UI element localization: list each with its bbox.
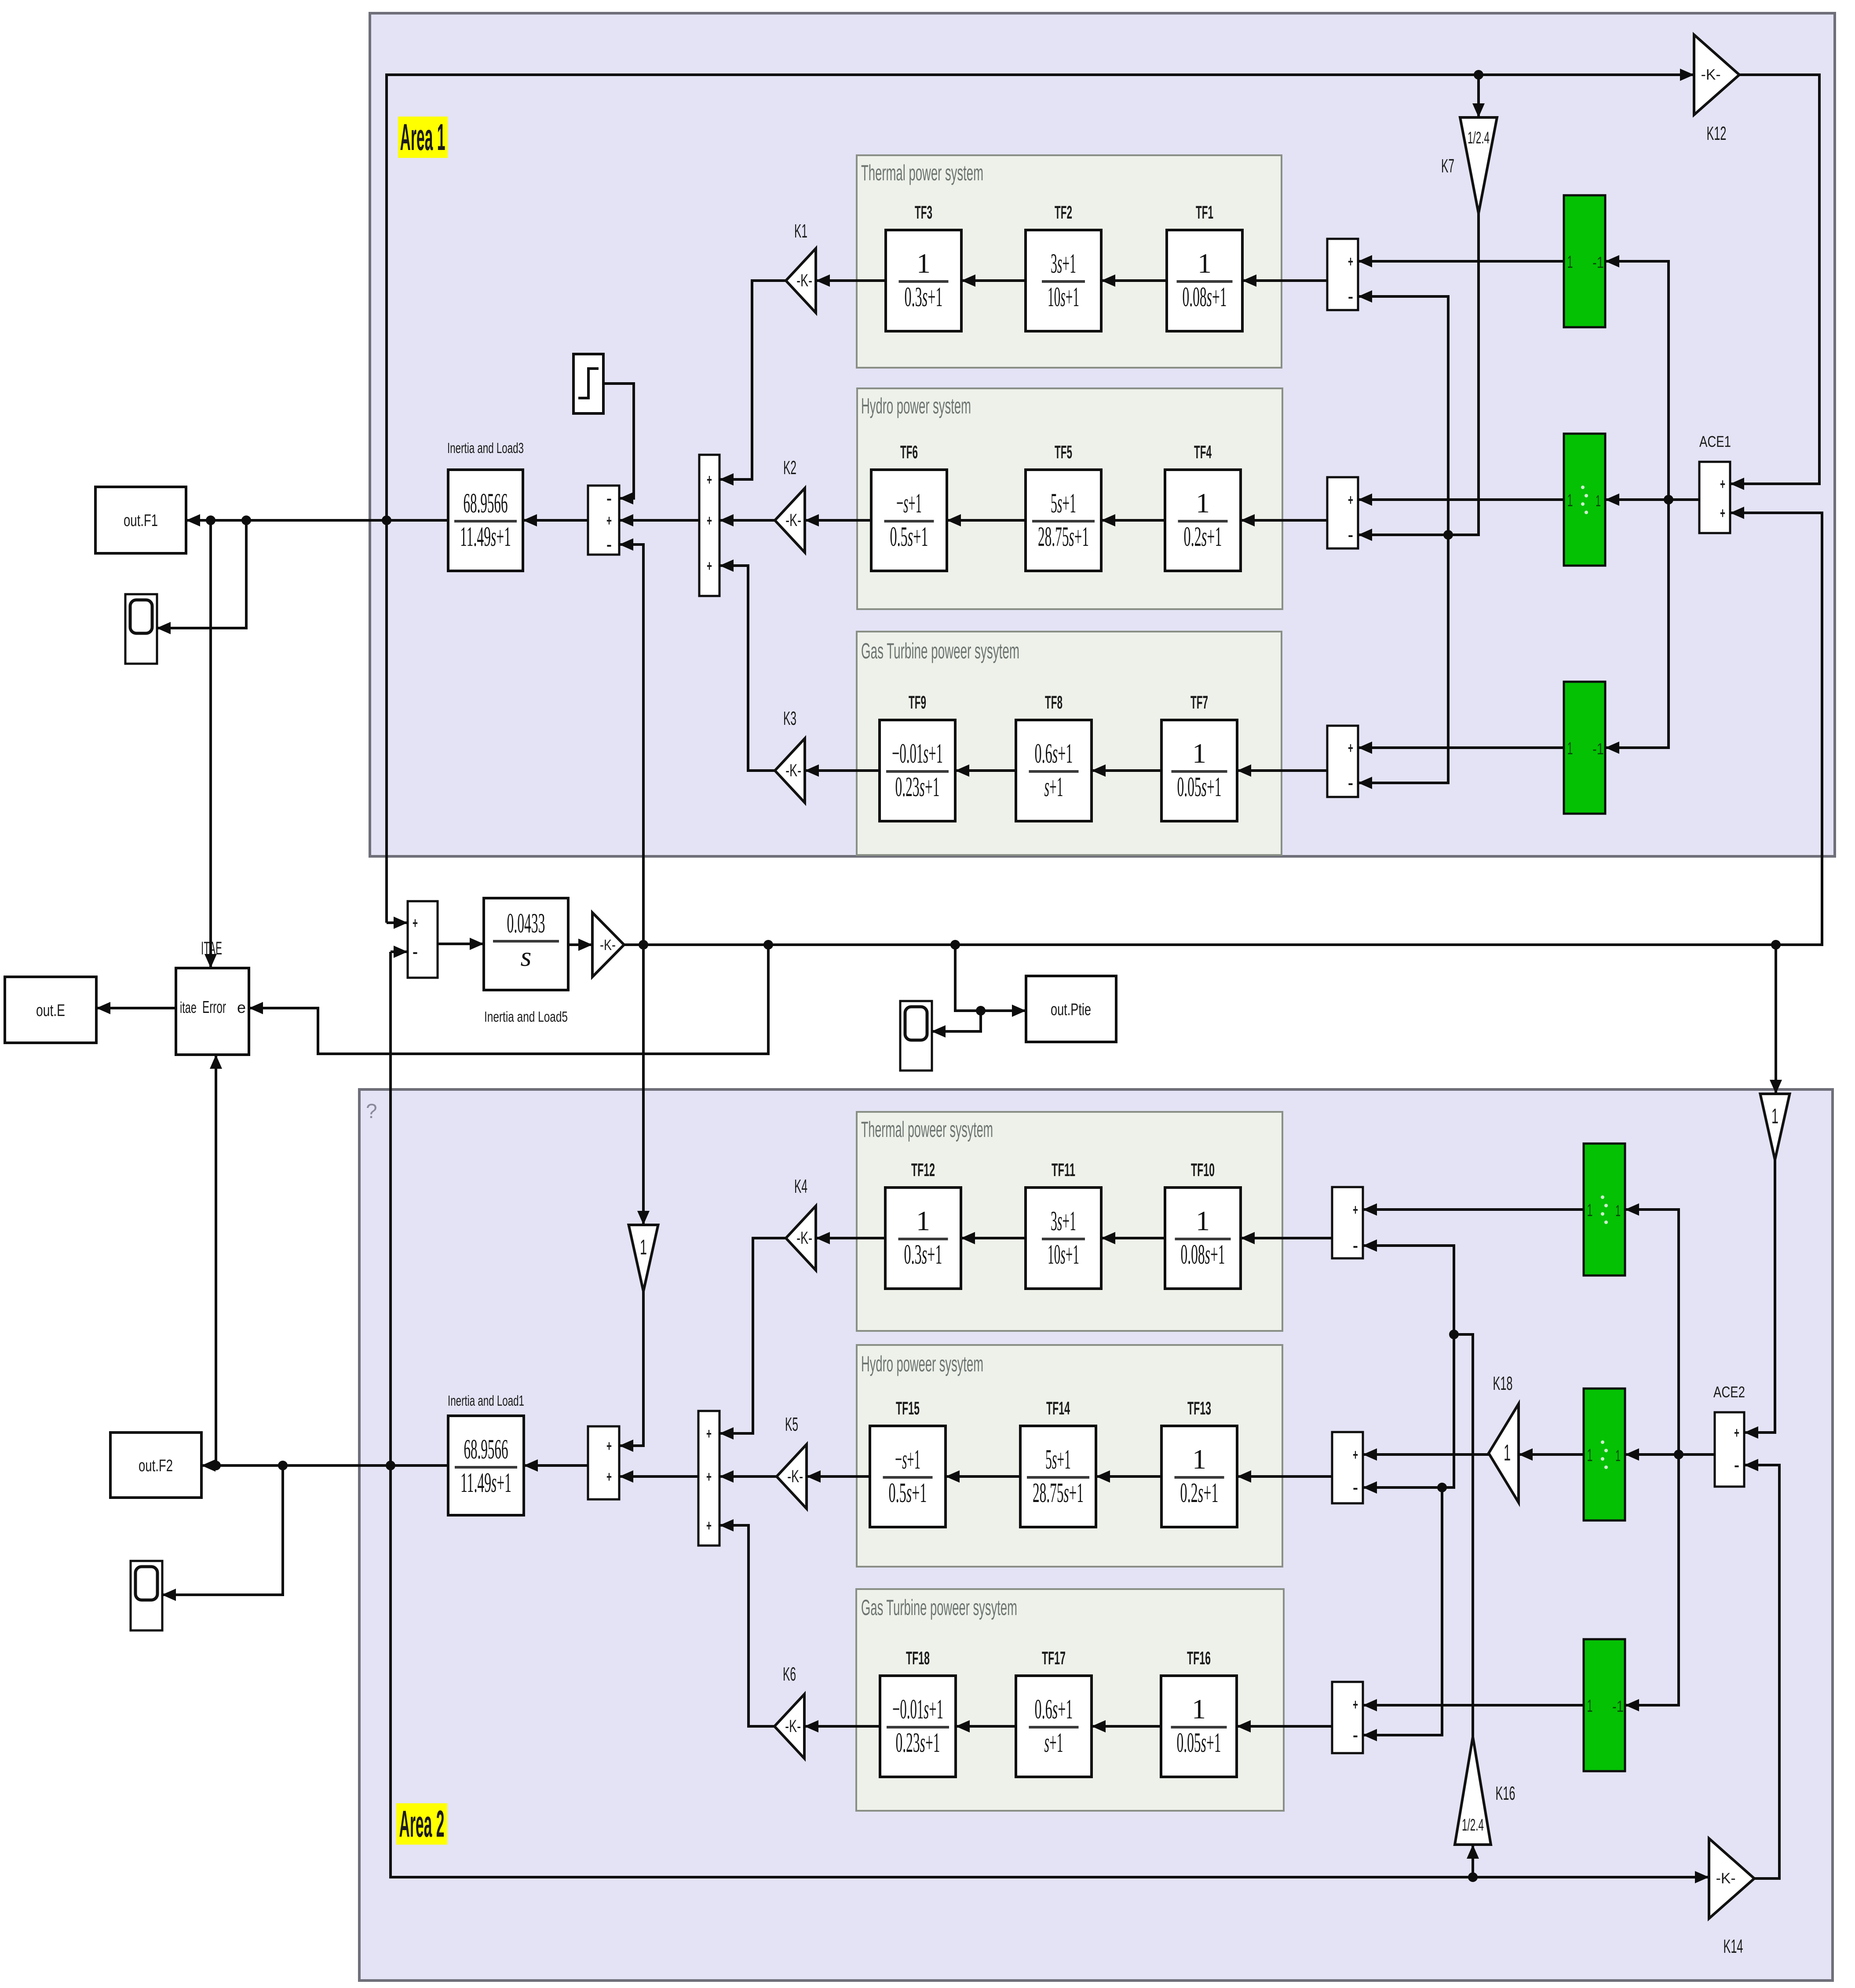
svg-text:ACE2: ACE2 [1713, 1384, 1745, 1401]
svg-text:+: + [707, 512, 712, 529]
wire: Error out to out.E [96, 1007, 176, 1009]
svg-text:1: 1 [1567, 252, 1573, 272]
svg-text:0.2s+1: 0.2s+1 [1180, 1477, 1219, 1508]
wire: gas chain (A2) [1237, 1725, 1332, 1728]
svg-text:-K-: -K- [1716, 1870, 1736, 1887]
svg-text:1: 1 [1196, 1205, 1210, 1236]
svg-text:−0.01s+1: −0.01s+1 [892, 1693, 943, 1725]
wire: minus chain down to gas sum [1358, 535, 1448, 783]
svg-text:0.08s+1: 0.08s+1 [1183, 281, 1227, 312]
svg-text:K7: K7 [1441, 155, 1454, 177]
outport out.E [5, 977, 96, 1043]
svg-text:TF5: TF5 [1055, 442, 1072, 462]
svg-text:Hydro power system: Hydro power system [861, 394, 971, 418]
Area 2 region box [359, 1089, 1833, 1981]
wire: tie to Error e [249, 945, 768, 1054]
wire: K3 to big sum in3 [719, 566, 775, 771]
svg-text:1: 1 [1198, 248, 1212, 279]
gain K6 [774, 1694, 804, 1758]
wire: tie to gain 1 right [1775, 945, 1777, 1094]
svg-text:-K-: -K- [796, 1228, 812, 1248]
wire: minus chain to thermal sum (A2) [1363, 1246, 1454, 1334]
Area 1 region box [370, 13, 1835, 856]
svg-text:-K-: -K- [1701, 66, 1721, 83]
gain K16 [1455, 1737, 1491, 1845]
svg-text:+: + [707, 471, 712, 488]
wire: tie to out.Ptie and scope [955, 945, 1026, 1011]
svg-text:-: - [1734, 1457, 1739, 1474]
svg-text:5s+1: 5s+1 [1051, 487, 1076, 519]
svg-text:68.9566: 68.9566 [464, 1433, 508, 1465]
svg-text:TF14: TF14 [1046, 1398, 1070, 1418]
wire: K16 up to minus chain [1454, 1334, 1473, 1737]
wire: K18 to hydro sum (A2) [1363, 1453, 1489, 1456]
svg-text:+: + [1353, 1447, 1358, 1463]
svg-text:28.75s+1: 28.75s+1 [1038, 521, 1089, 552]
block Inertia and Load5 [484, 898, 568, 990]
sum (gas, Area 2) [1332, 1682, 1363, 1753]
svg-text:TF11: TF11 [1052, 1159, 1075, 1180]
wire: 2-sum to Inertia1 [524, 1464, 588, 1467]
scope (F1) [125, 594, 157, 664]
svg-text:TF6: TF6 [900, 442, 918, 462]
block TF5 [1026, 470, 1101, 571]
svg-text:+: + [1720, 476, 1725, 493]
wire: gas chain [1237, 769, 1327, 772]
svg-text:0.6s+1: 0.6s+1 [1035, 1693, 1073, 1725]
svg-text:−s+1: −s+1 [895, 1443, 920, 1475]
sum (tie-line) [408, 901, 438, 978]
block TF1 [1167, 230, 1242, 331]
wire: F1 feedback up and to K12 [387, 75, 1694, 923]
wire: K4 to big sum in1 (A2) [719, 1238, 786, 1433]
wire: F2 to scope2 [162, 1465, 283, 1595]
scope (F2) [131, 1561, 162, 1630]
outport out.F1 [95, 487, 186, 553]
svg-text:Area 1: Area 1 [400, 117, 445, 158]
wire: dz hydro to K18 [1519, 1453, 1584, 1456]
svg-text:K5: K5 [785, 1414, 798, 1435]
step source [573, 354, 603, 413]
gain K3 [775, 738, 805, 803]
svg-text:+: + [1353, 1696, 1358, 1713]
dead zone (hydro, Area 1) [1564, 434, 1605, 566]
block TF8 [1016, 720, 1092, 821]
wire: K1 to big sum in1 [719, 281, 786, 479]
svg-text:TF1: TF1 [1196, 202, 1213, 223]
svg-text:TF17: TF17 [1042, 1648, 1066, 1668]
svg-text:+: + [1348, 492, 1353, 508]
wire: thermal chain (A2) [1241, 1237, 1332, 1239]
svg-text:K18: K18 [1493, 1373, 1513, 1394]
block TF6 [871, 470, 947, 571]
svg-text:1: 1 [1596, 492, 1601, 510]
wire: F1 to ITAE top [209, 520, 212, 968]
svg-text:s+1: s+1 [1044, 1727, 1063, 1758]
svg-text:Inertia and Load3: Inertia and Load3 [447, 440, 524, 456]
wire: ACE2 out to dead zones [1625, 1453, 1715, 1456]
svg-text:5s+1: 5s+1 [1045, 1443, 1071, 1475]
wire: tie to gain 1 left [642, 945, 645, 1225]
svg-text:1: 1 [1587, 1446, 1593, 1465]
block TF9 [880, 720, 955, 821]
wire: K12 output down to ACE1 in1 [1730, 75, 1819, 484]
svg-text:out.Ptie: out.Ptie [1051, 1001, 1091, 1019]
svg-text:out.F2: out.F2 [139, 1457, 173, 1475]
wire: Inertia3 output to out.F1 [186, 519, 448, 522]
wire: load sum to Inertia3 [523, 519, 588, 522]
wire: F2 to Error bottom [215, 1055, 217, 1465]
svg-text:10s+1: 10s+1 [1048, 281, 1079, 312]
svg-text:Inertia and Load5: Inertia and Load5 [484, 1009, 568, 1025]
sum (gas, Area 1) [1327, 726, 1358, 797]
svg-text:K6: K6 [783, 1663, 796, 1685]
svg-text:1: 1 [1615, 1447, 1621, 1465]
svg-text:Area 2: Area 2 [399, 1803, 445, 1845]
svg-text:0.23s+1: 0.23s+1 [896, 1727, 940, 1758]
group box: Gas Turbine poweer sysytem (Area 2) [856, 1589, 1284, 1811]
wire: dz thermal to sum (A2) [1363, 1208, 1584, 1211]
svg-text:TF10: TF10 [1191, 1159, 1215, 1180]
svg-text:-: - [606, 537, 612, 553]
svg-text:s: s [521, 941, 532, 972]
svg-text:68.9566: 68.9566 [464, 487, 508, 519]
gain K4 [786, 1206, 816, 1270]
svg-text:1: 1 [1192, 738, 1206, 769]
wire: minus chain up to thermal sum [1358, 296, 1448, 535]
svg-text:-1: -1 [1592, 253, 1604, 271]
group box: Hydro power system (Area 1) [857, 388, 1282, 609]
wire: thermal chain [1242, 279, 1327, 282]
svg-text:-1: -1 [1612, 1697, 1624, 1715]
svg-text:1: 1 [1615, 1202, 1621, 1220]
svg-text:+: + [1348, 253, 1353, 270]
gain K5 [777, 1444, 807, 1509]
svg-text:0.3s+1: 0.3s+1 [904, 1239, 942, 1270]
scope (Ptie) [900, 1001, 932, 1071]
svg-text:28.75s+1: 28.75s+1 [1033, 1477, 1084, 1508]
block TF2 [1026, 230, 1101, 331]
block TF14 [1020, 1426, 1096, 1527]
wire: hydro chain (A2) [1237, 1475, 1332, 1478]
svg-text:TF4: TF4 [1194, 442, 1212, 462]
label Area 2 [396, 1803, 447, 1845]
wire: dead zones to sums [1358, 260, 1564, 263]
wire: big sum out to 2-sum (A2) [619, 1475, 698, 1478]
wire: gain1 right to ACE2 in1 [1744, 1160, 1775, 1433]
block Inertia and Load3 [448, 470, 523, 571]
wire: loop to K16 [1472, 1845, 1474, 1877]
sum (3-input, Area 1) [699, 455, 719, 596]
svg-text:K12: K12 [1707, 123, 1727, 144]
svg-text:TF2: TF2 [1055, 202, 1072, 223]
svg-text:e: e [237, 998, 246, 1016]
wire: hydro chain [1241, 519, 1327, 522]
svg-text:Inertia and Load1: Inertia and Load1 [448, 1392, 524, 1409]
block TF16 [1161, 1676, 1237, 1777]
svg-text:itae: itae [180, 998, 197, 1016]
svg-text:K4: K4 [794, 1176, 807, 1197]
block TF10 [1165, 1188, 1241, 1289]
svg-text:+: + [1353, 1202, 1358, 1218]
block TF3 [886, 230, 961, 331]
label Area 1 [398, 117, 448, 158]
block TF11 [1026, 1188, 1101, 1289]
svg-text:0.6s+1: 0.6s+1 [1035, 738, 1073, 769]
svg-text:1: 1 [1504, 1440, 1511, 1466]
svg-text:1: 1 [916, 1205, 930, 1236]
svg-text:Thermal poweer sysytem: Thermal poweer sysytem [861, 1117, 993, 1142]
outport out.Ptie [1026, 976, 1116, 1042]
block TF12 [885, 1188, 961, 1289]
svg-text:K3: K3 [783, 708, 796, 729]
svg-text:TF8: TF8 [1045, 692, 1063, 713]
dead zone (thermal, Area 1) [1564, 195, 1605, 327]
svg-text:TF15: TF15 [896, 1398, 920, 1418]
svg-text:-: - [413, 944, 418, 961]
svg-text:1/2.4: 1/2.4 [1462, 1816, 1484, 1835]
svg-text:+: + [606, 512, 612, 529]
group box: Thermal poweer sysytem (Area 2) [857, 1112, 1282, 1331]
wire: gain1 left to 2-sum (A2) [619, 1291, 643, 1446]
svg-text:+: + [606, 1438, 612, 1454]
wire: to K7 [1477, 75, 1480, 117]
gain K18 [1489, 1404, 1519, 1502]
wire: Inertia1 out to out.F2 [201, 1464, 448, 1467]
svg-text:1: 1 [1196, 487, 1210, 519]
svg-text:1: 1 [917, 248, 931, 279]
svg-text:-1: -1 [1592, 740, 1604, 758]
dead zone (thermal, Area 2) [1584, 1144, 1625, 1275]
wire: K7 output to hydro sum minus [1358, 213, 1479, 535]
wire: big sum out to load sum [619, 519, 699, 522]
svg-text:K14: K14 [1724, 1936, 1743, 1957]
svg-text:3s+1: 3s+1 [1051, 248, 1076, 279]
svg-text:ACE1: ACE1 [1699, 433, 1731, 450]
svg-text:Thermal power system: Thermal power system [861, 161, 983, 185]
svg-text:-: - [1348, 775, 1353, 792]
sum (hydro, Area 2) [1332, 1432, 1363, 1503]
svg-text:0.08s+1: 0.08s+1 [1181, 1239, 1225, 1270]
block TF18 [880, 1676, 956, 1777]
outport out.F2 [110, 1433, 201, 1498]
svg-text:s+1: s+1 [1044, 771, 1063, 802]
wire: K14 out up to ACE2 in2 [1744, 1465, 1779, 1878]
svg-text:3s+1: 3s+1 [1051, 1205, 1076, 1236]
svg-text:+: + [1734, 1425, 1739, 1441]
svg-text:0.05s+1: 0.05s+1 [1177, 771, 1222, 802]
svg-text:?: ? [366, 1100, 377, 1122]
gain K1 [786, 248, 816, 313]
wire: tie sum to 0.0433/s [438, 943, 484, 945]
gain K14 [1709, 1838, 1754, 1919]
svg-text:TF13: TF13 [1187, 1398, 1211, 1418]
svg-text:TF3: TF3 [915, 202, 932, 223]
svg-text:-: - [1353, 1238, 1358, 1254]
wire: F2 to tie sum minus / K14 loop [391, 950, 408, 953]
svg-text:Gas Turbine poweer sysytem: Gas Turbine poweer sysytem [861, 639, 1019, 663]
wire: minus chain to hydro sum (A2) [1363, 1334, 1454, 1487]
gain K2 [775, 488, 805, 552]
gain K12 [1694, 35, 1739, 115]
svg-text:0.0433: 0.0433 [507, 907, 545, 939]
svg-text:1: 1 [640, 1236, 647, 1259]
sum (3-input, Area 2) [698, 1411, 719, 1546]
wire: 0.0433/s to -K- [568, 943, 592, 946]
block ITAE Error [176, 968, 249, 1055]
sum (2-input, Area 2) [588, 1426, 619, 1499]
sum (thermal, Area 1) [1327, 239, 1358, 310]
wire: K6 to big sum in3 (A2) [719, 1525, 774, 1726]
svg-text:0.5s+1: 0.5s+1 [890, 521, 928, 552]
dead zone (hydro, Area 2) [1584, 1389, 1625, 1520]
gain 1 (left, to Area 2) [629, 1225, 658, 1291]
svg-text:11.49s+1: 11.49s+1 [460, 521, 511, 552]
svg-text:11.49s+1: 11.49s+1 [460, 1467, 511, 1498]
wire: tie line across [624, 513, 1822, 945]
sum (hydro, Area 1) [1327, 477, 1358, 548]
svg-text:1: 1 [1771, 1105, 1778, 1128]
svg-text:0.3s+1: 0.3s+1 [905, 281, 943, 312]
svg-text:TF7: TF7 [1190, 692, 1208, 713]
svg-text:1: 1 [1567, 739, 1573, 758]
sum ACE2 [1715, 1412, 1744, 1487]
group box: Thermal power system (Area 1) [857, 155, 1282, 368]
svg-text:-: - [1353, 1480, 1358, 1496]
svg-text:−0.01s+1: −0.01s+1 [892, 738, 943, 769]
svg-text:-K-: -K- [785, 1717, 801, 1736]
wire: minus chain to gas sum (A2) [1363, 1487, 1442, 1735]
svg-text:+: + [1720, 505, 1725, 522]
svg-text:TF16: TF16 [1187, 1648, 1211, 1668]
svg-text:K16: K16 [1496, 1783, 1515, 1804]
svg-text:-K-: -K- [785, 761, 801, 780]
group box: Hydro poweer sysytem (Area 2) [857, 1345, 1282, 1567]
gain 1 (right, to ACE2) [1760, 1094, 1790, 1160]
svg-text:1: 1 [1587, 1696, 1593, 1716]
svg-text:-K-: -K- [600, 937, 616, 954]
svg-text:1: 1 [1192, 1443, 1206, 1475]
svg-text:-: - [1353, 1727, 1358, 1744]
gain K7 [1460, 117, 1497, 213]
svg-text:0.2s+1: 0.2s+1 [1184, 521, 1222, 552]
svg-text:TF12: TF12 [911, 1159, 935, 1180]
wire: K5 to big sum in2 (A2) [719, 1475, 777, 1478]
block TF15 [870, 1426, 946, 1527]
svg-text:-: - [1348, 527, 1353, 544]
svg-text:−s+1: −s+1 [896, 487, 922, 519]
svg-text:+: + [606, 1469, 612, 1485]
group box: Gas Turbine poweer sysytem (Area 1) [857, 632, 1282, 855]
block TF4 [1165, 470, 1241, 571]
svg-text:out.F1: out.F1 [124, 512, 158, 530]
svg-text:+: + [706, 1469, 712, 1485]
svg-text:-K-: -K- [785, 511, 801, 530]
block TF7 [1161, 720, 1237, 821]
dead zone (gas, Area 2) [1584, 1639, 1625, 1771]
sum (thermal, Area 2) [1332, 1187, 1363, 1258]
svg-text:0.23s+1: 0.23s+1 [895, 771, 940, 802]
svg-text:+: + [413, 915, 418, 932]
svg-text:+: + [706, 1425, 712, 1442]
svg-text:1: 1 [1567, 491, 1573, 510]
wire: K2 to big sum in2 [719, 519, 775, 522]
wire: tie feedback to load sum [619, 545, 643, 945]
svg-text:-K-: -K- [796, 271, 812, 290]
block TF13 [1161, 1426, 1237, 1527]
svg-text:Gas Turbine poweer sysytem: Gas Turbine poweer sysytem [861, 1595, 1017, 1620]
wire: ACE1 out to dead zones [1605, 498, 1699, 501]
svg-text:+: + [706, 1517, 712, 1534]
svg-text:K2: K2 [783, 457, 796, 479]
svg-text:-: - [1348, 289, 1353, 305]
svg-text:1/2.4: 1/2.4 [1468, 129, 1490, 147]
gain tie -K- [592, 913, 624, 977]
block TF17 [1016, 1676, 1092, 1777]
dead zone (gas, Area 1) [1564, 682, 1605, 814]
svg-text:+: + [1348, 740, 1353, 756]
sum (load, Area 1) [588, 486, 619, 555]
svg-text:0.5s+1: 0.5s+1 [889, 1477, 927, 1508]
svg-text:-K-: -K- [787, 1467, 803, 1486]
svg-text:TF18: TF18 [906, 1648, 930, 1668]
sum ACE1 [1699, 462, 1730, 533]
svg-text:10s+1: 10s+1 [1048, 1239, 1079, 1270]
svg-text:Hydro poweer sysytem: Hydro poweer sysytem [861, 1352, 983, 1376]
svg-text:0.05s+1: 0.05s+1 [1177, 1727, 1221, 1758]
wire: dz gas to sum (A2) [1363, 1704, 1584, 1707]
svg-text:TF9: TF9 [909, 692, 926, 713]
svg-text:-: - [606, 490, 612, 507]
svg-text:1: 1 [1587, 1201, 1593, 1220]
svg-text:out.E: out.E [36, 1001, 65, 1020]
wire: step to load sum [603, 384, 634, 498]
svg-text:Error: Error [202, 998, 226, 1017]
svg-text:1: 1 [1192, 1693, 1206, 1725]
svg-text:+: + [707, 558, 712, 574]
wire: F1 to scope1 [157, 520, 246, 628]
block Inertia and Load1 [448, 1416, 524, 1515]
svg-text:K1: K1 [794, 220, 807, 242]
